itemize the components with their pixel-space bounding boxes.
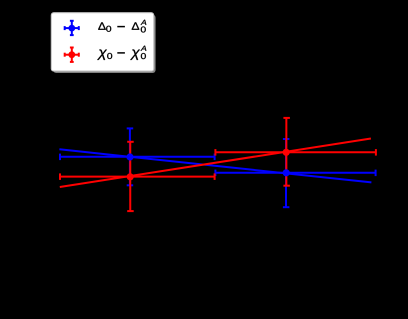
red errorbars point2 bbox=[215, 118, 376, 186]
blue errorbars point2 bbox=[215, 139, 375, 207]
legend label row1 bbox=[98, 20, 146, 33]
row2 chi2 bbox=[141, 46, 147, 51]
blue errorbars point1 bbox=[60, 128, 215, 185]
row2 chi1 bbox=[107, 53, 112, 59]
row2 supA bbox=[141, 53, 146, 59]
legend red handle bbox=[65, 48, 79, 62]
legend blue handle bbox=[65, 21, 79, 35]
legend shadow bbox=[53, 15, 155, 73]
row1 Delta1 bbox=[106, 26, 111, 32]
legend label row2 bbox=[97, 46, 146, 60]
blue marker point2 bbox=[283, 169, 290, 176]
red marker point1 bbox=[127, 173, 134, 180]
row1 supA bbox=[141, 26, 146, 32]
blue fit line bbox=[59, 149, 371, 182]
legend box bbox=[51, 13, 153, 71]
row2 sub0a bbox=[117, 52, 125, 54]
red fit line bbox=[60, 139, 371, 188]
red errorbars point1 bbox=[60, 142, 215, 211]
red marker point2 bbox=[283, 149, 290, 156]
row1 Delta2 bbox=[141, 20, 147, 25]
row1 sub0a bbox=[117, 26, 125, 28]
blue marker point1 bbox=[126, 153, 133, 160]
